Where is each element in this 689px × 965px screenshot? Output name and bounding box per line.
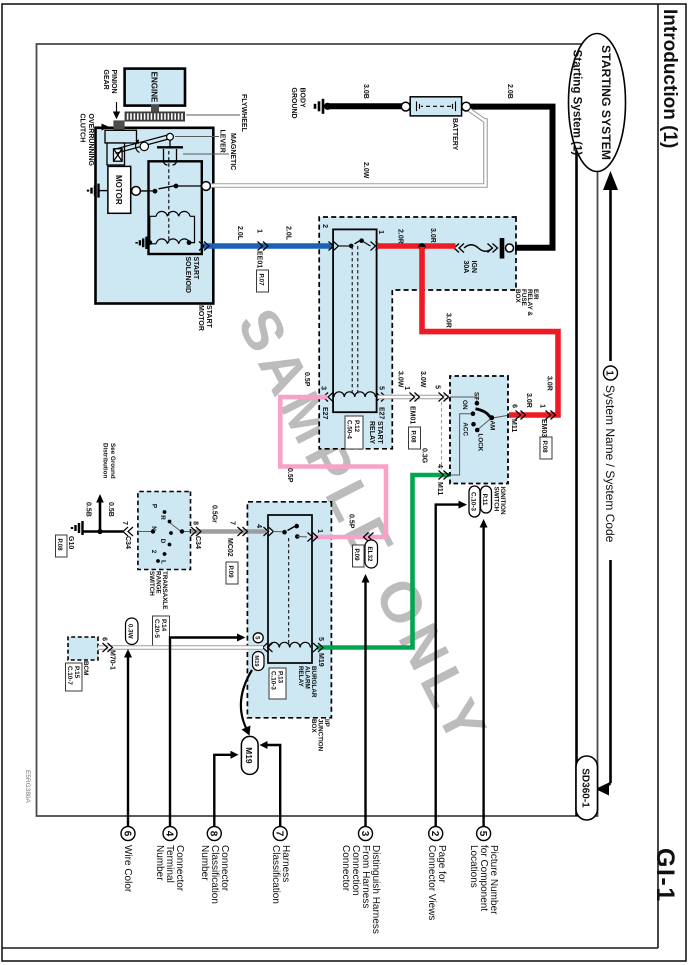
solenoid moving contact (159, 186, 175, 189)
svg-text:1: 1 (539, 404, 546, 408)
svg-text:4: 4 (436, 464, 443, 468)
svg-text:EM01: EM01 (409, 406, 416, 424)
svg-text:2: 2 (321, 224, 328, 228)
connector EE01 chevron on blue wire (258, 242, 269, 251)
svg-text:System Name / System Code: System Name / System Code (603, 385, 617, 543)
svg-text:M19: M19 (244, 747, 254, 764)
svg-text:P.08: P.08 (410, 431, 417, 444)
callout 8 arrow (214, 751, 238, 826)
svg-text:1: 1 (377, 230, 384, 234)
connector M70-1 chevron (103, 643, 113, 652)
B terminal circle (202, 182, 211, 191)
svg-text:8: 8 (208, 831, 219, 837)
svg-text:C.10-3: C.10-3 (470, 492, 477, 511)
callout 6 arrow (124, 649, 132, 826)
svg-text:PINION: PINION (110, 70, 117, 94)
red junction dot (418, 243, 425, 250)
svg-text:1: 1 (256, 229, 263, 233)
M11 dashed connector line (441, 402, 443, 469)
svg-text:D: D (159, 539, 166, 544)
2.0B wire from battery to fuse box (thick black) (471, 107, 553, 248)
E/R RELAY & FUSE BOX label (514, 289, 539, 316)
svg-text:RELAY: RELAY (297, 666, 304, 688)
IGN 30A fuse element (464, 245, 492, 252)
svg-text:M19: M19 (253, 655, 259, 667)
svg-text:2.0W: 2.0W (362, 162, 369, 179)
svg-text:C34: C34 (124, 536, 131, 549)
svg-text:3.0R: 3.0R (429, 228, 436, 243)
solenoid internals: contact from M terminal (149, 190, 154, 192)
EL32 oval label (365, 540, 378, 568)
I/P junction box (dashed) (247, 502, 331, 718)
svg-text:OVERRUNNING: OVERRUNNING (87, 114, 94, 167)
burglar coil (269, 642, 311, 647)
black 0.5B wire to ground (83, 530, 123, 533)
motor ground wire (99, 190, 108, 192)
svg-text:BCM: BCM (82, 661, 89, 675)
svg-text:SWITCH: SWITCH (148, 571, 155, 596)
relay pin3 chevron (pink down) (323, 393, 333, 402)
burglar linkage dashed (288, 538, 290, 644)
circled 1 annotation (604, 366, 618, 380)
transaxle page ref box P.14 C.20-5 (153, 616, 170, 647)
solenoid internal ground (137, 237, 147, 249)
svg-text:2: 2 (429, 831, 440, 837)
svg-text:ACC: ACC (462, 422, 469, 436)
svg-text:P.12: P.12 (353, 420, 360, 433)
transaxle pin7 chevron (C34) (123, 527, 133, 536)
svg-text:4: 4 (163, 831, 174, 837)
svg-text:C.50-4: C.50-4 (346, 420, 353, 439)
connector MC02 chevron on gray (238, 527, 248, 536)
svg-text:MOTOR: MOTOR (114, 175, 123, 205)
svg-text:SOLENOID: SOLENOID (184, 257, 191, 294)
svg-text:GI-1: GI-1 (651, 848, 679, 903)
svg-text:GEAR: GEAR (102, 70, 109, 90)
svg-text:START: START (192, 257, 199, 281)
burglar pin1 chevron on pink (308, 533, 318, 542)
svg-text:Wire Color: Wire Color (122, 845, 133, 893)
svg-text:2.0B: 2.0B (506, 84, 513, 99)
svg-text:Classification: Classification (270, 845, 281, 904)
connector EM03 chevron on red (546, 411, 556, 420)
engine-flywheel hub (151, 105, 159, 113)
svg-text:ST: ST (473, 392, 480, 400)
coil bottom chevron (263, 643, 273, 652)
red 2.0R relay pin1 to fuse (377, 243, 456, 249)
annotation arrow for system name/code (596, 171, 619, 796)
svg-text:Locations: Locations (468, 845, 479, 888)
svg-text:0.5B: 0.5B (107, 502, 114, 517)
svg-text:GROUND: GROUND (290, 88, 297, 119)
svg-text:Number: Number (154, 845, 165, 881)
svg-text:5: 5 (317, 637, 324, 641)
svg-text:0.3G: 0.3G (421, 448, 428, 464)
ignition contact dots (475, 401, 480, 406)
ground G10 (72, 521, 83, 535)
transaxle internals (138, 523, 191, 532)
svg-text:P.08: P.08 (541, 441, 548, 454)
svg-text:0.5Gr: 0.5Gr (211, 505, 218, 523)
relay pin2 chevron (blue in) (329, 242, 339, 251)
svg-text:ON: ON (461, 400, 468, 410)
svg-text:IGN: IGN (470, 261, 477, 273)
callout labels (122, 845, 499, 934)
EL32 page ref box P.09 (353, 545, 365, 567)
svg-text:3: 3 (359, 831, 370, 837)
svg-text:0.5P: 0.5P (303, 372, 310, 387)
svg-text:M11: M11 (436, 482, 443, 495)
svg-text:P.09: P.09 (353, 549, 360, 562)
relay contact (338, 245, 349, 247)
svg-text:Distribution: Distribution (102, 443, 109, 478)
svg-text:M11: M11 (510, 419, 517, 432)
G10 page ref box P.08 (56, 535, 68, 557)
ignition pin5 chevron (M11) (439, 393, 449, 402)
svg-text:P.11: P.11 (481, 494, 488, 506)
svg-text:0.5B: 0.5B (85, 502, 92, 517)
svg-text:1: 1 (604, 370, 615, 376)
svg-text:3.0B: 3.0B (362, 84, 369, 99)
svg-text:5: 5 (434, 385, 441, 389)
BCM box (dashed) (68, 637, 98, 660)
SD360-1 stadium (576, 756, 598, 820)
svg-text:E5RG380A: E5RG380A (24, 770, 31, 804)
curved arrow to M19 stadium (241, 670, 252, 729)
pinion gear (113, 120, 124, 130)
svg-text:2.0L: 2.0L (236, 226, 243, 241)
svg-text:EL32: EL32 (366, 546, 373, 562)
svg-text:AM: AM (489, 421, 496, 431)
svg-text:EM03: EM03 (540, 419, 547, 437)
pull-in coil (156, 211, 190, 216)
svg-text:START: START (205, 305, 212, 329)
connector M11 chevron on red (pin 6) (516, 411, 526, 420)
svg-text:Starting System (1): Starting System (1) (571, 50, 584, 156)
transaxle pin8 chevron (C34) (191, 527, 201, 536)
ignition key lever (thick) (476, 409, 491, 417)
svg-text:6: 6 (121, 831, 132, 837)
svg-text:0.3W: 0.3W (127, 624, 134, 639)
svg-text:M70-1: M70-1 (109, 650, 116, 670)
start motor outer box (96, 128, 214, 304)
E/R relay and fuse box (dashed L-shape) (319, 217, 516, 449)
callout 4 arrow (170, 634, 246, 827)
lever-plunger joint circle (167, 133, 174, 140)
svg-text:3.0R: 3.0R (525, 393, 532, 408)
svg-text:FLYWHEEL: FLYWHEEL (240, 94, 247, 133)
connector EM01 chevron (410, 393, 420, 402)
connector EL32 chevron on pink (364, 533, 374, 542)
relay linkage dashed lines (357, 246, 359, 395)
wire contact to B terminal (176, 185, 202, 187)
callout circled numbers (121, 827, 491, 841)
motor ground (88, 184, 99, 198)
see ground distribution branch (96, 494, 104, 532)
svg-text:SWITCH: SWITCH (493, 487, 500, 512)
svg-text:7: 7 (121, 521, 128, 525)
svg-text:1: 1 (403, 386, 410, 390)
svg-text:P.08: P.08 (56, 539, 63, 552)
M19 small oval label (253, 652, 265, 671)
svg-text:MC02: MC02 (226, 538, 233, 557)
svg-text:STARTING SYSTEM: STARTING SYSTEM (599, 45, 613, 160)
header rule vertical (2, 947, 658, 949)
svg-text:P.15: P.15 (73, 666, 80, 679)
EE01 page ref box P.07 (257, 270, 269, 292)
svg-text:M19: M19 (317, 653, 324, 667)
relay pin1 chevron (red out) (371, 242, 381, 251)
svg-text:P.13: P.13 (277, 671, 284, 684)
relay coil (334, 392, 376, 397)
svg-text:L: L (160, 560, 167, 564)
callout 2 arrow (436, 501, 467, 826)
header rule horizontal (657, 4, 659, 948)
svg-text:3.0W: 3.0W (397, 371, 404, 388)
svg-text:BOX: BOX (514, 289, 521, 303)
callout 5 arrow (480, 519, 488, 826)
engine box (125, 69, 185, 106)
coil bottoms to ground (150, 216, 156, 244)
body ground wire (3.0B) (328, 103, 403, 109)
svg-text:0.5P: 0.5P (348, 514, 355, 529)
flywheel (toothed bar) (125, 112, 185, 122)
svg-text:See Ground: See Ground (109, 443, 116, 479)
clutch / pinion shaft assembly (105, 130, 137, 165)
burglar page ref box P.13 C.10-3 (269, 668, 286, 699)
svg-text:E27: E27 (321, 407, 328, 420)
svg-text:START: START (376, 421, 383, 445)
svg-text:3.0R: 3.0R (445, 313, 452, 328)
svg-text:CLUTCH: CLUTCH (79, 114, 86, 143)
battery box (410, 97, 461, 116)
burglar pin4 chevron (264, 527, 274, 536)
svg-text:4: 4 (255, 524, 262, 528)
svg-text:C.10-7: C.10-7 (66, 666, 73, 685)
motor to solenoid wire with M terminal (131, 190, 149, 192)
svg-text:MAGNETIC: MAGNETIC (229, 133, 236, 170)
red 3.0R branch to ignition (422, 247, 558, 415)
svg-text:Connector Views: Connector Views (426, 845, 437, 920)
body ground symbol (315, 99, 331, 114)
transaxle range switch box (dashed) (138, 492, 191, 570)
svg-text:2: 2 (150, 550, 157, 554)
ignition switch box (dashed) (450, 376, 508, 484)
svg-text:Number: Number (199, 845, 210, 881)
svg-text:C34: C34 (194, 536, 201, 549)
svg-text:BATTERY: BATTERY (451, 118, 458, 151)
relay pin5 chevron (white 3.0W up) (376, 393, 386, 402)
fuse holder bar (500, 238, 505, 259)
diagram frame (37, 44, 598, 816)
svg-text:P.09: P.09 (227, 566, 234, 579)
callout 3 arrow (362, 574, 370, 826)
transaxle position dots (163, 510, 167, 514)
magnetic switch plunger (157, 140, 183, 165)
svg-text:6: 6 (101, 637, 108, 641)
svg-text:LOCK: LOCK (477, 434, 484, 452)
battery internal dashes and plates (417, 102, 456, 112)
svg-text:C.10-3: C.10-3 (270, 671, 277, 690)
svg-text:6: 6 (511, 404, 518, 408)
board connector circle (253, 633, 263, 643)
lever pivot circle with rotation arc (140, 142, 148, 150)
svg-text:2.0R: 2.0R (397, 229, 404, 244)
svg-text:R: R (159, 515, 166, 520)
svg-text:P.07: P.07 (258, 274, 265, 287)
svg-text:RELAY: RELAY (368, 421, 375, 444)
svg-text:EE01: EE01 (256, 251, 263, 268)
svg-text:3.0W: 3.0W (419, 371, 426, 388)
svg-text:8: 8 (192, 521, 199, 525)
fuse chevrons (454, 244, 498, 253)
svg-text:3: 3 (320, 386, 327, 390)
start relay page ref box P.12 C.50-4 (345, 416, 363, 449)
ignition pin4 chevron (M11) (439, 471, 449, 480)
burglar alarm relay inner box (268, 515, 312, 663)
svg-text:BODY: BODY (299, 88, 306, 109)
hold-in coil (156, 239, 190, 244)
BCM page ref box P.15 C.10-7 (66, 663, 83, 691)
svg-text:7: 7 (229, 521, 236, 525)
contact from pin4 (273, 531, 282, 533)
M terminal circle (132, 187, 141, 196)
M19 stadium (241, 736, 258, 774)
battery terminal circles (462, 102, 471, 111)
svg-text:P.14: P.14 (160, 619, 167, 632)
svg-text:Connector: Connector (340, 845, 351, 892)
start solenoid box (149, 161, 202, 254)
callout 7 arrow (260, 741, 281, 826)
solenoid exit chevron (199, 242, 209, 251)
system title rule (575, 150, 578, 816)
fuse terminal circle (506, 244, 514, 252)
motor box (108, 166, 131, 213)
svg-text:N: N (150, 526, 157, 531)
svg-text:BOX: BOX (310, 719, 317, 733)
svg-text:30A: 30A (462, 261, 469, 274)
0.3W oval label (126, 618, 139, 645)
burglar pin5 chevron on green (313, 643, 323, 652)
svg-text:5: 5 (477, 831, 488, 837)
svg-text:SD360-1: SD360-1 (580, 768, 591, 808)
coil top link to blue output (189, 216, 195, 242)
solenoid linkage dashed line (168, 151, 170, 243)
svg-text:3.0R: 3.0R (546, 376, 553, 391)
svg-text:MOTOR: MOTOR (197, 305, 204, 331)
svg-text:LEVER: LEVER (219, 130, 226, 153)
svg-text:E27: E27 (378, 407, 385, 420)
svg-text:2.0L: 2.0L (285, 226, 292, 241)
svg-text:7: 7 (274, 831, 285, 837)
svg-text:ENGINE: ENGINE (150, 72, 159, 103)
ignition page ref stadiums (481, 486, 492, 513)
svg-text:5: 5 (378, 386, 385, 390)
0.5B junction dot (97, 529, 102, 534)
title ellipse STARTING SYSTEM (569, 34, 626, 172)
shift lever (two parallel lines) (115, 135, 171, 154)
svg-text:G10: G10 (67, 536, 74, 549)
svg-text:Introduction (1): Introduction (1) (659, 9, 680, 148)
svg-text:P: P (151, 504, 158, 508)
svg-text:C.20-5: C.20-5 (153, 619, 160, 638)
svg-text:1: 1 (316, 529, 323, 533)
svg-text:0.5P: 0.5P (286, 468, 293, 483)
